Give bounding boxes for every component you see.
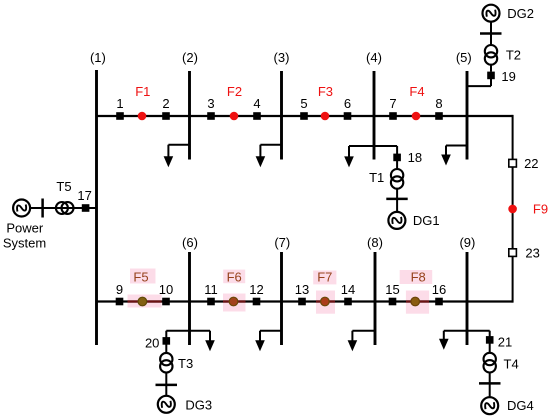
svg-text:12: 12 [249, 282, 263, 297]
svg-text:8: 8 [435, 96, 442, 111]
svg-text:13: 13 [295, 282, 309, 297]
svg-text:F6: F6 [227, 269, 242, 284]
svg-text:3: 3 [207, 96, 214, 111]
svg-text:(4): (4) [366, 50, 382, 65]
svg-text:2: 2 [162, 96, 169, 111]
svg-text:4: 4 [253, 96, 260, 111]
svg-text:(8): (8) [367, 235, 383, 250]
svg-text:21: 21 [498, 334, 512, 349]
svg-text:Power: Power [6, 221, 44, 236]
svg-text:7: 7 [389, 96, 396, 111]
svg-text:T2: T2 [506, 48, 521, 63]
svg-text:16: 16 [432, 282, 446, 297]
svg-text:19: 19 [501, 69, 515, 84]
svg-text:17: 17 [77, 188, 91, 203]
svg-text:F4: F4 [409, 84, 424, 99]
svg-text:(3): (3) [274, 50, 290, 65]
svg-text:(7): (7) [274, 235, 290, 250]
svg-text:F1: F1 [135, 84, 150, 99]
svg-text:9: 9 [116, 282, 123, 297]
svg-text:DG4: DG4 [507, 398, 534, 413]
svg-text:F2: F2 [227, 84, 242, 99]
svg-text:22: 22 [524, 156, 538, 171]
svg-text:DG2: DG2 [507, 6, 534, 21]
svg-text:(2): (2) [182, 50, 198, 65]
svg-text:System: System [3, 235, 46, 250]
svg-text:1: 1 [116, 96, 123, 111]
svg-text:F9: F9 [533, 202, 548, 217]
svg-text:23: 23 [525, 246, 539, 261]
svg-text:DG1: DG1 [413, 213, 440, 228]
svg-text:(1): (1) [90, 50, 106, 65]
svg-text:F8: F8 [411, 269, 426, 284]
svg-text:(9): (9) [459, 235, 475, 250]
svg-text:DG3: DG3 [185, 397, 212, 412]
svg-text:T3: T3 [178, 356, 193, 371]
svg-text:6: 6 [344, 96, 351, 111]
svg-text:(6): (6) [182, 235, 198, 250]
svg-text:F3: F3 [318, 84, 333, 99]
svg-text:15: 15 [385, 282, 399, 297]
svg-text:T5: T5 [56, 179, 71, 194]
svg-text:11: 11 [204, 282, 218, 297]
svg-text:14: 14 [341, 282, 355, 297]
svg-text:F7: F7 [317, 269, 332, 284]
svg-text:T4: T4 [504, 357, 519, 372]
svg-text:20: 20 [145, 335, 159, 350]
svg-text:T1: T1 [369, 170, 384, 185]
svg-text:(5): (5) [456, 50, 472, 65]
svg-text:5: 5 [300, 96, 307, 111]
svg-text:18: 18 [408, 150, 422, 165]
svg-text:10: 10 [159, 282, 173, 297]
svg-text:F5: F5 [133, 269, 148, 284]
